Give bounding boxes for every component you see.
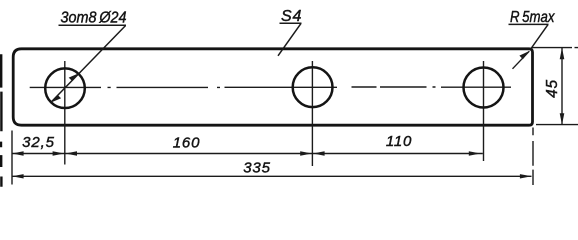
- dimension line 110: [312, 153, 482, 155]
- horizontal centerline: [30, 86, 511, 88]
- scan artifact left edge: [0, 54, 3, 187]
- dimension line 160: [65, 153, 313, 155]
- leader shelf for S4: [280, 22, 302, 24]
- right dashed extension line for 335: [532, 128, 534, 186]
- leader line for S4 crossing top edge: [278, 23, 301, 55]
- dimension line 32.5: [12, 153, 65, 155]
- hole 3: [464, 68, 504, 108]
- svg-text:R 5max: R 5max: [510, 9, 555, 26]
- leader line from shelf to top-right corner: [531, 25, 548, 49]
- hole 2: [293, 67, 333, 107]
- dimension 45 top extension line: [532, 47, 578, 49]
- svg-text:3om8 Ø24: 3om8 Ø24: [61, 9, 127, 26]
- svg-text:32,5: 32,5: [22, 134, 55, 151]
- svg-text:45: 45: [544, 79, 561, 98]
- hole 3 vertical centerline / extension line: [483, 61, 485, 161]
- dimension 45 bottom extension line: [536, 124, 578, 126]
- hole 1 vertical centerline / extension line: [64, 61, 66, 165]
- leader shelf for 3otv: [59, 24, 127, 26]
- hole 2 vertical centerline / extension line: [311, 61, 313, 166]
- dimension line 335: [12, 175, 532, 177]
- leader line to hole 1 (diameter line with two arrows): [51, 26, 126, 103]
- plate outline: [13, 49, 532, 125]
- hole 1: [45, 68, 85, 108]
- dimension 45 line: [561, 48, 563, 125]
- svg-text:160: 160: [173, 135, 200, 152]
- arrow pointing to corner radius: [513, 51, 530, 69]
- leader shelf for R5max: [509, 23, 549, 25]
- left extension line for 32.5 / 335: [11, 131, 13, 185]
- svg-text:110: 110: [386, 133, 412, 150]
- svg-text:335: 335: [243, 159, 270, 176]
